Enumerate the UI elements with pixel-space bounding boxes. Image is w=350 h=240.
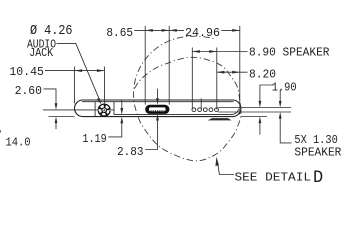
dim line 10.45 [45, 70, 105, 72]
svg-text:8.90 SPEAKER: 8.90 SPEAKER [249, 46, 330, 60]
jack housing box right line [113, 102, 115, 115]
svg-text:1.90: 1.90 [272, 80, 297, 94]
svg-text:8.65: 8.65 [106, 26, 133, 40]
1.19 down arrow [120, 108, 123, 115]
2.60 up arrow [55, 117, 58, 124]
10.45 right arrow [97, 69, 105, 72]
ext bottom-left of 2.60 [49, 116, 75, 118]
svg-text:24.96: 24.96 [185, 26, 220, 40]
2.83 down arrow [156, 98, 159, 105]
ext line A speaker top [218, 107, 291, 109]
2.60 down arrow [55, 103, 58, 110]
ext line speaker left [191, 48, 193, 110]
svg-text:SEE DETAIL: SEE DETAIL [235, 170, 312, 184]
leader 1.19 [121, 100, 123, 110]
detail boundary spiral D (dash-dot) [134, 36, 241, 161]
1.19 up arrow [120, 117, 123, 124]
svg-text:1.19: 1.19 [82, 132, 106, 146]
device inner bottom edge line [114, 109, 239, 114]
bottom chamfer bar [208, 118, 232, 120]
speaker holes 5x [192, 108, 218, 112]
device body outline [75, 100, 241, 117]
8.65 left arrow [145, 29, 153, 32]
dim line 8.90 [192, 51, 247, 53]
ext line B speaker bottom [218, 111, 291, 113]
8.65 right arrow [162, 29, 170, 32]
ext line connector right [168, 26, 170, 105]
ext line connector left [144, 26, 146, 105]
8.90 right arrow [209, 50, 217, 53]
1.90 down arrow [259, 101, 262, 108]
10.45 left arrow [75, 69, 83, 72]
jack housing box left line [94, 102, 96, 117]
svg-text:10.45: 10.45 [9, 65, 44, 79]
svg-text:14.0: 14.0 [5, 135, 30, 149]
8.20 left arrow [217, 71, 225, 74]
leader see detail [218, 163, 234, 175]
ext line hole2 short [200, 98, 202, 109]
leader 2.83 [157, 89, 159, 101]
8.20 right arrow [232, 71, 240, 74]
svg-text:D: D [313, 168, 323, 188]
dim line 8.65 / 24.96 [134, 29, 184, 31]
audio jack leader arrow [97, 98, 102, 105]
24.96 left arrow [169, 29, 177, 32]
8.90 left arrow [192, 50, 200, 53]
5x up arrow [279, 112, 282, 119]
svg-text:SPEAKER: SPEAKER [294, 146, 341, 160]
svg-text:JACK: JACK [29, 46, 53, 60]
leader 2.60 [44, 89, 57, 106]
ext line device left [74, 67, 76, 104]
svg-text:2.60: 2.60 [15, 84, 42, 98]
dim line 8.20 [217, 71, 248, 73]
ext line C bottom right [241, 116, 267, 118]
see detail arrow [215, 157, 219, 166]
svg-text:2.83: 2.83 [117, 145, 144, 159]
5x down arrow [279, 101, 282, 108]
ext line device right [239, 26, 241, 115]
leader 1.90 [260, 85, 274, 104]
1.90 up arrow [259, 117, 262, 124]
audio jack leader [57, 43, 100, 100]
ext jack centerline left [43, 109, 98, 111]
ext line jack center [104, 67, 106, 104]
24.96 right arrow [232, 29, 240, 32]
lightning connector [145, 105, 169, 114]
2.83 up arrow [156, 114, 159, 121]
ext line speaker right [216, 48, 218, 110]
audio jack symbol [98, 104, 111, 117]
svg-text:A: A [0, 127, 1, 136]
device inner top edge line [82, 101, 234, 103]
leader 5x1.30 [279, 90, 281, 104]
